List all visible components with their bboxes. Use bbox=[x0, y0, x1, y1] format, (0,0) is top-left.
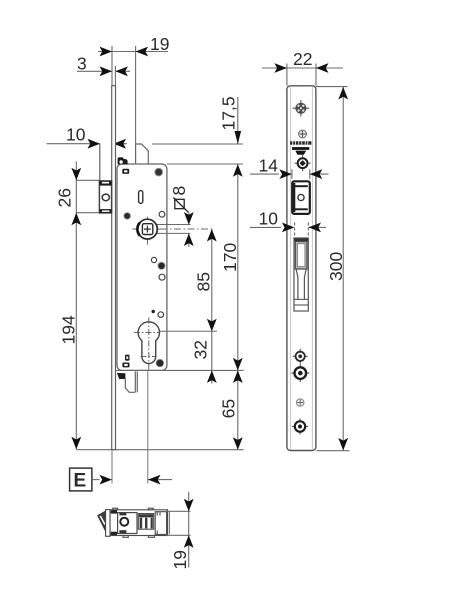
case bottom extension bbox=[116, 369, 244, 371]
dimension 170 / 65 vertical line bbox=[237, 164, 239, 449]
case rectangular hole top left bbox=[122, 169, 129, 174]
svg-text:19: 19 bbox=[170, 550, 190, 569]
svg-text:3: 3 bbox=[77, 54, 87, 74]
screw S5 bbox=[291, 364, 309, 382]
dimension 19 arrows bbox=[100, 47, 149, 57]
right end lines bbox=[168, 511, 170, 534]
dimension 194 arrow bbox=[71, 437, 81, 450]
case capsule slot bbox=[139, 191, 143, 204]
screw S3 bbox=[295, 155, 311, 171]
case top extension to 170 dim bbox=[167, 163, 243, 165]
170 top arrow bbox=[233, 164, 243, 177]
square 8 arrows bbox=[184, 212, 194, 246]
bracket below case bbox=[117, 373, 126, 379]
svg-text:19: 19 bbox=[150, 34, 169, 54]
dimension 3 line bbox=[77, 66, 130, 86]
lock case side view bbox=[117, 164, 167, 370]
bottom reference line bbox=[76, 449, 243, 451]
dimension 14 line bbox=[250, 169, 329, 179]
screw S4 bbox=[293, 349, 308, 364]
small circle mid case bbox=[151, 257, 156, 262]
dimension 26 arrows bbox=[71, 168, 81, 225]
85 top arrow bbox=[207, 229, 217, 242]
latch feet bbox=[123, 536, 128, 538]
svg-text:65: 65 bbox=[219, 399, 239, 418]
svg-text:194: 194 bbox=[59, 315, 79, 344]
svg-text:300: 300 bbox=[326, 252, 346, 281]
svg-text:8: 8 bbox=[169, 186, 189, 196]
latch body outline bbox=[110, 510, 168, 536]
svg-text:17,5: 17,5 bbox=[219, 96, 239, 130]
small circle right of follower bbox=[159, 211, 165, 217]
svg-text:10: 10 bbox=[259, 209, 279, 229]
svg-text:14: 14 bbox=[259, 156, 279, 176]
tiny dot above cylinder bbox=[152, 310, 155, 313]
strike box side view bbox=[99, 181, 111, 213]
screw S2 bbox=[299, 130, 307, 138]
65 top arrow bbox=[233, 370, 243, 383]
case screw left of follower bbox=[124, 213, 131, 220]
svg-text:22: 22 bbox=[293, 49, 312, 69]
dimension 10 left line bbox=[47, 144, 127, 181]
follower spindle lines bbox=[134, 225, 213, 234]
faceplate extension below bbox=[111, 450, 113, 484]
screw S1 top bbox=[293, 100, 309, 116]
tiny rect details bottom left in case bbox=[125, 355, 130, 361]
square 8 symbol bbox=[173, 198, 189, 248]
32 bottom arrow bbox=[207, 370, 217, 383]
dimension 10 right line bbox=[250, 223, 326, 237]
small black stop at case top left bbox=[118, 157, 128, 164]
screw S7 bbox=[292, 419, 308, 435]
dark screw mid case bbox=[158, 262, 165, 269]
dimension 17,5 line bbox=[152, 97, 243, 144]
65 bottom arrow bbox=[233, 437, 243, 450]
strike box hole bbox=[102, 194, 109, 201]
latch top bumps bbox=[113, 508, 118, 510]
screw bottom right in case bbox=[156, 359, 164, 367]
slider box bbox=[155, 512, 166, 535]
brand logo trapezoid bbox=[295, 151, 306, 155]
svg-text:170: 170 bbox=[220, 243, 240, 272]
dimension 19 top line bbox=[98, 46, 168, 144]
dimension 300 line bbox=[342, 87, 344, 451]
faceplate bar cross-section bbox=[106, 510, 110, 537]
svg-text:10: 10 bbox=[66, 125, 86, 145]
dark corner marks bbox=[111, 510, 117, 513]
strike box extension line bbox=[99, 144, 101, 181]
cylinder profile hole bbox=[134, 318, 160, 370]
guide box with pin bbox=[118, 513, 137, 534]
small circle below bbox=[159, 274, 165, 280]
screw S6 bbox=[297, 399, 304, 406]
latch head wedge bbox=[98, 511, 106, 531]
small circle above cylinder right bbox=[158, 312, 164, 318]
dimension 22 line bbox=[262, 64, 343, 86]
brand logo black bar bbox=[292, 147, 309, 150]
comb section bbox=[138, 514, 153, 530]
center line below lock bbox=[147, 371, 149, 484]
top latch element on case bbox=[136, 144, 149, 164]
dimension 26 and 194 vertical line bbox=[76, 161, 99, 449]
svg-text:32: 32 bbox=[191, 340, 211, 359]
dimension 19 bottom line bbox=[188, 492, 190, 568]
svg-text:E: E bbox=[74, 471, 87, 492]
svg-text:26: 26 bbox=[55, 188, 75, 207]
faceplate front view bbox=[287, 86, 316, 451]
extension lines to 300 dim bbox=[316, 86, 348, 88]
svg-text:85: 85 bbox=[194, 272, 214, 291]
dimension 3 arrows bbox=[100, 66, 128, 76]
connector cylinder center to 32 dim bbox=[160, 330, 217, 332]
faceplate side view bbox=[112, 86, 116, 450]
case screw top right bbox=[155, 168, 163, 176]
E dimension line bbox=[92, 479, 100, 481]
E dimension box bbox=[70, 468, 92, 491]
dimension 85 / 32 vertical line bbox=[211, 229, 213, 384]
dimension 10 arrows bbox=[88, 139, 127, 149]
bottom latch detail top view bbox=[98, 508, 170, 537]
85 bottom arrow bbox=[207, 319, 217, 332]
deadbolt window front view bbox=[294, 238, 308, 311]
follower bbox=[132, 217, 162, 245]
latch window front view bbox=[292, 181, 310, 214]
dimension 19 bottom connectors bbox=[166, 510, 191, 512]
dimension 17,5 arrow bbox=[235, 131, 242, 144]
brand text strip bbox=[290, 141, 311, 144]
170 bottom arrow bbox=[233, 358, 243, 371]
